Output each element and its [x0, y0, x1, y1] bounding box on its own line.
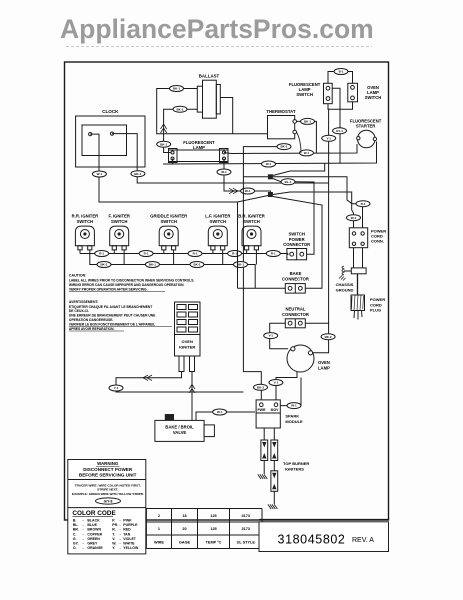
- wire label R-1 chain 2: [139, 251, 153, 257]
- arrow chevron up on valve wire: [189, 385, 195, 390]
- svg-text:POWER: POWER: [289, 237, 305, 242]
- wire fluorescent switch to starter drop GY-1: [332, 88, 340, 163]
- svg-text:YELLOW: YELLOW: [123, 546, 139, 550]
- thermostat: [266, 109, 296, 139]
- svg-text:R-1: R-1: [271, 252, 276, 256]
- wire gauge table: [146, 509, 262, 549]
- wire switch left leg drop: [79, 250, 81, 254]
- wire power cord connector to strain relief right: [362, 248, 364, 268]
- fluorescent lamp switch: [289, 82, 332, 104]
- igniter switch S4 (L.F. IGNITER): [205, 214, 230, 250]
- wire oven lamp bottom to spark module MOV: [276, 372, 297, 405]
- svg-text:REV. A: REV. A: [352, 537, 374, 544]
- spark module: [256, 400, 303, 428]
- wire junction A fan up to run A: [273, 163, 325, 175]
- svg-text:OVEN: OVEN: [318, 360, 330, 365]
- chassis ground label: [336, 282, 354, 292]
- svg-text:BL-1: BL-1: [285, 180, 292, 184]
- svg-text:BK-1: BK-1: [237, 263, 244, 267]
- svg-text:C.: C.: [73, 532, 77, 536]
- svg-text:PWR: PWR: [258, 408, 266, 412]
- wire junction A straight to R-1 power path: [273, 177, 356, 204]
- svg-text:B-1: B-1: [339, 70, 344, 74]
- power cord plug: [351, 295, 365, 320]
- svg-text:W-1: W-1: [291, 404, 297, 408]
- ground igniter 1: [258, 474, 268, 479]
- svg-text:WIRE: WIRE: [154, 540, 164, 544]
- svg-text:WARNING: WARNING: [97, 461, 119, 466]
- svg-text:V-1: V-1: [274, 381, 279, 385]
- svg-text:COPPER: COPPER: [87, 532, 102, 536]
- bake broil valve: [155, 414, 215, 441]
- svg-text:W-1: W-1: [97, 172, 103, 176]
- wire ballast right side loop: [220, 98, 232, 134]
- svg-text:BR.: BR.: [73, 528, 79, 532]
- svg-text:RED: RED: [123, 528, 131, 532]
- wire label R-1 chain 3: [188, 251, 202, 257]
- wire oven igniter left prong to Y-1 run: [116, 372, 243, 393]
- top burner igniter 1: [261, 440, 268, 461]
- bake connector: [282, 271, 309, 293]
- wire power cord below strain relief: [357, 274, 359, 295]
- junction node B: [268, 192, 273, 197]
- wire label BK-1 ballast upper: [170, 86, 184, 92]
- fluorescent lamp: [169, 140, 229, 163]
- svg-text:SWITCH: SWITCH: [365, 95, 382, 100]
- switch power connector: [283, 232, 310, 260]
- wire long vertical bus v1: [237, 202, 239, 288]
- wire label B-1 top: [334, 69, 348, 75]
- wire label V-1 spark module: [269, 380, 283, 386]
- wire label V-1 neutral: [264, 333, 278, 339]
- svg-text:G/Y-8: G/Y-8: [104, 499, 113, 503]
- svg-text:PINK: PINK: [123, 518, 132, 522]
- svg-text:VALVE: VALVE: [173, 430, 187, 435]
- svg-text:F. IGNITER: F. IGNITER: [108, 214, 129, 219]
- fluorescent starter: [350, 119, 382, 148]
- wire label R-1 power cord: [356, 201, 370, 207]
- svg-text:BK-1: BK-1: [193, 263, 200, 267]
- svg-text:PR.: PR.: [112, 523, 118, 527]
- wire oven igniter right prong to valve: [191, 372, 193, 421]
- wire junction A left feed: [243, 176, 268, 178]
- igniter switch S1 (R.R. IGNITER): [72, 214, 99, 250]
- clock: [76, 109, 145, 167]
- svg-text:3173: 3173: [242, 527, 250, 531]
- avertissement note (french): [69, 300, 172, 331]
- svg-text:CONNECTOR: CONNECTOR: [282, 277, 309, 282]
- svg-text:3173: 3173: [242, 514, 250, 518]
- svg-text:R-1: R-1: [99, 252, 104, 256]
- svg-text:ORANGE: ORANGE: [87, 546, 103, 550]
- svg-text:WHITE: WHITE: [123, 542, 135, 546]
- svg-text:MODULE: MODULE: [285, 419, 303, 424]
- svg-text:SWITCH: SWITCH: [296, 92, 313, 97]
- wire bake connector right riser: [273, 197, 322, 289]
- svg-text:GREY: GREY: [87, 542, 98, 546]
- oven lamp: [287, 345, 330, 372]
- wire label W-1 valve: [213, 409, 227, 415]
- wire label R-1 chain 5: [266, 251, 280, 257]
- svg-text:BEFORE SERVICING UNIT: BEFORE SERVICING UNIT: [79, 473, 137, 478]
- svg-text:BAKE: BAKE: [290, 271, 302, 276]
- wire upper chain into switch power connector: [287, 253, 288, 256]
- svg-text:GROUND: GROUND: [336, 287, 354, 292]
- svg-text:LAMP: LAMP: [318, 365, 330, 370]
- svg-text:W-1: W-1: [217, 410, 223, 414]
- wire switch right leg drop: [123, 250, 125, 265]
- svg-text:L.F. IGNITER: L.F. IGNITER: [205, 214, 230, 219]
- top burner igniter 3: [271, 471, 278, 492]
- ballast: [197, 74, 220, 119]
- svg-text:BK-2: BK-2: [257, 385, 264, 389]
- svg-text:SPARK: SPARK: [285, 414, 299, 419]
- wire label BK-1 thermostat lower: [277, 144, 291, 150]
- svg-text:125: 125: [210, 514, 216, 518]
- wire thermostat upper terminal to drop: [297, 121, 317, 153]
- caution note (english): [69, 274, 195, 292]
- svg-text:COLOR CODE: COLOR CODE: [72, 510, 116, 517]
- svg-text:TEMP °C: TEMP °C: [206, 540, 222, 544]
- svg-text:OVEN: OVEN: [182, 339, 193, 344]
- wire neutral connector right to bus: [305, 322, 328, 324]
- wire ballast lower terminal to fluorescent lamp: [164, 109, 198, 152]
- svg-text:VERIFIER LE BON FONCTIONNEMENT: VERIFIER LE BON FONCTIONNEMENT DE L'APPA…: [69, 323, 155, 327]
- svg-text:SWITCH: SWITCH: [288, 232, 305, 237]
- junction node A: [268, 174, 273, 179]
- oven lamp switch: [348, 83, 381, 102]
- chassis ground symbol: [339, 266, 351, 281]
- svg-text:W-1: W-1: [245, 189, 251, 193]
- wire igniter 1 to ground: [263, 461, 265, 475]
- svg-text:CONN.: CONN.: [371, 239, 384, 244]
- arrow chevrons right on lamp drop wire: [229, 188, 234, 193]
- wire spark module to igniter 2: [273, 428, 275, 440]
- wire lamp left cap lower to run A: [163, 159, 172, 165]
- svg-text:W-1: W-1: [351, 216, 357, 220]
- svg-text:R-1: R-1: [144, 252, 149, 256]
- svg-text:BL.: BL.: [73, 523, 79, 527]
- wire switch left leg drop: [163, 250, 165, 254]
- svg-text:BK-1: BK-1: [304, 120, 311, 124]
- power cord connector: [349, 228, 386, 248]
- power cord plug label: [370, 297, 385, 313]
- part number box: [259, 519, 389, 551]
- wire label R-1 chain 4: [228, 251, 242, 257]
- svg-text:BK-1: BK-1: [100, 263, 107, 267]
- wire label BL-1: [281, 179, 295, 185]
- svg-text:R-1: R-1: [361, 202, 366, 206]
- wire lamp right cap upper to thermostat/starter run: [224, 144, 357, 154]
- wire junction A fan down through BL-1 to switch power connector: [273, 179, 314, 255]
- svg-text:BK-1: BK-1: [160, 142, 167, 146]
- svg-text:UL STYLE: UL STYLE: [237, 540, 256, 544]
- wire label BK-1 chain 1: [97, 262, 111, 268]
- igniter switch S5 (B.R. IGNITER): [238, 214, 265, 250]
- svg-text:318045802: 318045802: [278, 533, 346, 547]
- wire thermostat left feed: [243, 147, 290, 405]
- color code table: [72, 510, 139, 550]
- svg-text:WIRING ERROR CAN CAUSE IMPROPE: WIRING ERROR CAN CAUSE IMPROPER AND DANG…: [69, 283, 185, 287]
- ground igniter 3: [268, 504, 278, 509]
- svg-text:SWITCH: SWITCH: [243, 219, 260, 224]
- svg-text:P.: P.: [112, 518, 115, 522]
- svg-text:BK-1: BK-1: [280, 145, 287, 149]
- wire label Y-1 valve run: [109, 385, 123, 391]
- svg-text:LABEL ALL WIRES PRIOR TO DISCO: LABEL ALL WIRES PRIOR TO DISCONNECTION W…: [69, 278, 195, 282]
- wire lamp right cap lower drop to junction B: [224, 159, 270, 195]
- svg-text:B.: B.: [73, 518, 77, 522]
- svg-text:APRES AVOIR REPARATION.: APRES AVOIR REPARATION.: [69, 327, 115, 331]
- svg-text:R-1: R-1: [232, 252, 237, 256]
- svg-text:NEUTRAL: NEUTRAL: [285, 307, 305, 312]
- svg-text:W-1: W-1: [221, 170, 227, 174]
- wire label R-1 chain 1: [95, 251, 109, 257]
- svg-text:BK-2: BK-2: [325, 335, 332, 339]
- neutral connector: [282, 307, 309, 328]
- svg-text:R-1: R-1: [193, 252, 198, 256]
- svg-text:O.: O.: [73, 546, 77, 550]
- wire label W-1 before junction B: [241, 188, 255, 194]
- wire label GY-1: [333, 128, 347, 134]
- svg-text:PLUG: PLUG: [370, 308, 381, 313]
- svg-text:TAN: TAN: [123, 532, 130, 536]
- svg-text:ETIQUETER CHAQUE FIL AVANT LE: ETIQUETER CHAQUE FIL AVANT LE BRANCHEMEN…: [69, 305, 152, 309]
- svg-text:V.: V.: [112, 537, 115, 541]
- svg-text:DE CEUX-CI.: DE CEUX-CI.: [69, 309, 89, 313]
- svg-text:SWITCH: SWITCH: [77, 219, 94, 224]
- svg-text:BK-1: BK-1: [176, 107, 183, 111]
- wire igniter 3 to ground: [273, 491, 275, 504]
- svg-text:CHASSIS: CHASSIS: [336, 282, 354, 287]
- svg-text:MOV: MOV: [271, 408, 279, 412]
- svg-text:UNE ERREUR DE BRANCHEMENT PEUT: UNE ERREUR DE BRANCHEMENT PEUT CAUSER UN…: [69, 314, 156, 318]
- svg-text:IGNITER: IGNITER: [179, 344, 195, 349]
- wire spark module right to oven lamp loop: [280, 378, 301, 406]
- svg-text:SWITCH: SWITCH: [210, 219, 227, 224]
- igniter switch S2 (F. IGNITER): [108, 214, 129, 250]
- svg-text:18: 18: [182, 514, 186, 518]
- wire thermostat lower terminal arc: [297, 132, 302, 153]
- svg-text:BK-1: BK-1: [149, 263, 156, 267]
- svg-text:125: 125: [210, 527, 216, 531]
- wire clock terminal 1 to junction run: [90, 134, 268, 202]
- wire label BK-1 thermostat upper: [301, 118, 315, 124]
- wire label W-1 clock left: [92, 171, 106, 177]
- svg-text:VIOLET: VIOLET: [123, 537, 137, 541]
- svg-text:CORD: CORD: [370, 302, 382, 307]
- svg-text:B.R. IGNITER: B.R. IGNITER: [238, 214, 265, 219]
- svg-text:T.: T.: [112, 532, 115, 536]
- igniter switch S3 (GRIDDLE IGNITER): [150, 214, 187, 250]
- wire label BK-1 chain 4: [234, 262, 248, 268]
- svg-text:VERIFY PROPER OPERATION AFTER: VERIFY PROPER OPERATION AFTER SERVICING.: [69, 288, 148, 292]
- wire label W-1 power cord: [347, 215, 361, 221]
- svg-text:G.: G.: [73, 537, 77, 541]
- wire label BK-1 chain 2: [145, 262, 159, 268]
- svg-text:GAGE: GAGE: [179, 540, 191, 544]
- oven igniter: [175, 302, 201, 372]
- wire label BK-2 spark module PWR: [254, 384, 268, 390]
- svg-text:POWER: POWER: [370, 297, 385, 302]
- warning box: [68, 460, 146, 554]
- wire igniter switch chain lower (BK-1 bus): [89, 265, 255, 289]
- svg-text:EXAMPLE: GREEN WIRE WITH YELLO: EXAMPLE: GREEN WIRE WITH YELLOW STRIPE: [72, 492, 144, 496]
- strain relief block: [351, 268, 366, 274]
- schematic border frame: [65, 62, 389, 520]
- svg-text:BAKE / BROIL: BAKE / BROIL: [165, 425, 194, 430]
- svg-text:IGNITERS: IGNITERS: [285, 466, 304, 471]
- wire junction B to power cord connector W-1: [273, 192, 354, 228]
- wire spark module to igniter 1: [263, 428, 265, 440]
- wire igniter switch chain upper (R-1 bus): [80, 253, 288, 255]
- svg-text:BALLAST: BALLAST: [199, 74, 220, 79]
- wire R-1 oval to power cord connector: [362, 207, 364, 228]
- wire valve to W-1 stub: [196, 412, 255, 420]
- wire switch right leg drop: [89, 250, 91, 265]
- wire switch left leg drop: [113, 250, 115, 254]
- svg-text:Y.: Y.: [112, 546, 115, 550]
- svg-text:SWITCH: SWITCH: [160, 219, 177, 224]
- svg-text:W.: W.: [112, 542, 116, 546]
- wire label W-1 on starter run: [300, 150, 314, 156]
- wire switch left leg drop: [246, 250, 248, 254]
- svg-text:V-1: V-1: [268, 334, 273, 338]
- wire label BK-2 near neutral connector: [321, 334, 335, 340]
- svg-text:1: 1: [158, 527, 160, 531]
- svg-text:BLACK: BLACK: [87, 518, 100, 522]
- svg-text:W-1: W-1: [304, 151, 310, 155]
- wire bake connector left bus: [238, 287, 286, 289]
- wire between lamp switch tops: [328, 72, 353, 84]
- arrow chevron up on ballast-lamp wire: [161, 124, 167, 129]
- wire clock terminal 2 to lamp-switch vertical: [112, 134, 329, 183]
- arrow chevrons left on igniter wire: [147, 375, 152, 380]
- svg-text:BK-1: BK-1: [173, 87, 180, 91]
- wire label W-1 lamp drop: [217, 169, 231, 175]
- svg-text:GRIDDLE IGNITER: GRIDDLE IGNITER: [150, 214, 187, 219]
- svg-text:AppliancePartsPros.com: AppliancePartsPros.com: [60, 14, 374, 44]
- wire lamp switch bottoms joint drop: [329, 102, 353, 109]
- wire switch right leg drop: [255, 250, 257, 265]
- wire label BK-1 clock right: [131, 171, 145, 177]
- wire run A under lamp to starter right: [163, 142, 376, 165]
- wire neutral connector left to oven lamp: [270, 323, 288, 349]
- svg-text:GY-1: GY-1: [336, 129, 343, 133]
- svg-text:DISCONNECT POWER: DISCONNECT POWER: [83, 467, 133, 472]
- svg-text:LAMP: LAMP: [193, 145, 205, 150]
- svg-text:BROWN: BROWN: [87, 528, 101, 532]
- svg-text:SWITCH: SWITCH: [111, 219, 128, 224]
- svg-text:AVERTISSEMENT:: AVERTISSEMENT:: [69, 300, 99, 304]
- wire igniter 2 to igniter 3: [273, 461, 275, 471]
- svg-text:STARTER: STARTER: [356, 124, 375, 129]
- svg-text:CONNECTOR: CONNECTOR: [283, 242, 310, 247]
- svg-text:CONNECTOR: CONNECTOR: [282, 312, 309, 317]
- svg-text:GY.: GY.: [73, 542, 79, 546]
- svg-text:CLOCK: CLOCK: [102, 109, 119, 114]
- svg-text:BK-1: BK-1: [134, 172, 141, 176]
- wire switch right leg drop: [222, 250, 224, 265]
- wire ballast upper terminal loop: [157, 89, 268, 134]
- svg-text:THERMOSTAT: THERMOSTAT: [266, 109, 296, 114]
- svg-text:2: 2: [158, 514, 160, 518]
- wire label BK-1 above lamp: [157, 141, 171, 147]
- svg-text:TOP BURNER: TOP BURNER: [283, 461, 309, 466]
- svg-text:W-1: W-1: [266, 162, 272, 166]
- wire label W-1 on run A: [262, 161, 276, 167]
- wire label W-1 spark right: [287, 403, 301, 409]
- wire switch right leg drop: [173, 250, 175, 265]
- wire long vertical from lamp switches to oven lamp: [311, 104, 329, 353]
- svg-text:20: 20: [182, 527, 186, 531]
- svg-text:R.R. IGNITER: R.R. IGNITER: [72, 214, 99, 219]
- watermark underline artifact: [66, 46, 372, 48]
- wire power cord connector to strain relief left: [353, 248, 355, 268]
- svg-text:Y-1: Y-1: [114, 386, 119, 390]
- svg-text:BLUE: BLUE: [87, 523, 97, 527]
- wire label BK-1 chain 3: [190, 262, 204, 268]
- wire switch left leg drop: [212, 250, 214, 254]
- svg-text:Y-1: Y-1: [326, 136, 331, 140]
- svg-text:GREEN: GREEN: [87, 537, 100, 541]
- wire label BK-1 ballast lower: [173, 106, 187, 112]
- svg-text:OPERATION DANGEREUSE.: OPERATION DANGEREUSE.: [69, 318, 114, 322]
- svg-text:R.: R.: [112, 528, 116, 532]
- wire label Y-1: [322, 135, 336, 141]
- svg-text:CAUTION:: CAUTION:: [69, 274, 87, 278]
- top burner igniters label: [283, 461, 309, 471]
- top burner igniter 2: [271, 440, 278, 461]
- svg-text:PURPLE: PURPLE: [123, 523, 138, 527]
